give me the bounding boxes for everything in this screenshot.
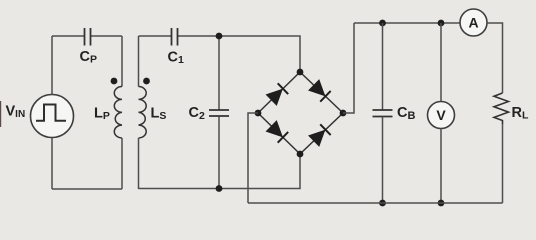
diode D1 (left to top) [266, 83, 289, 106]
capacitor CB [373, 110, 393, 117]
wire: bottom right rail [248, 202, 503, 204]
junction dot V bottom [438, 200, 445, 207]
capacitor C2 branch wire bottom [218, 117, 220, 189]
diode D3 (left to bottom) [266, 120, 289, 143]
bridge rectifier edges [258, 72, 343, 154]
capacitor C1 [172, 28, 178, 46]
polarity dot LP [111, 78, 118, 85]
wire: top right rail [354, 22, 460, 24]
inductor LP [114, 36, 122, 189]
resistor RL [494, 93, 509, 203]
wire: left edge artifact [0, 101, 2, 127]
wire: loop2 bottom rail [139, 154, 301, 189]
wire: VIN top [51, 36, 53, 95]
wire: A to RL corner [487, 23, 503, 93]
svg-text:A: A [468, 15, 478, 31]
junction dot V top [438, 20, 445, 27]
capacitor C2 branch wire top [218, 36, 220, 110]
wire: V branch bottom [440, 129, 442, 204]
diode D2 (top to right) [308, 79, 331, 102]
diode D4 (bottom to right) [308, 124, 331, 147]
capacitor CP [85, 28, 91, 46]
svg-text:V: V [436, 107, 446, 123]
junction dot CB top [379, 20, 386, 27]
node top of bridge [297, 69, 304, 76]
inductor LS [139, 36, 147, 189]
capacitor C2 [209, 110, 229, 116]
wire: VIN bottom [51, 138, 53, 190]
wire: bridge right node to top right rail [343, 23, 354, 113]
polarity dot LS [143, 78, 150, 85]
voltmeter V [428, 102, 455, 129]
junction dot CB bottom [379, 200, 386, 207]
wire: V branch top [440, 23, 442, 102]
wire: bridge left node to bottom rail [248, 113, 258, 203]
capacitor CB branch wire bottom [382, 117, 384, 204]
wire: loop2 top rail [139, 35, 172, 37]
node bottom of bridge [297, 151, 304, 158]
wire: loop1 top rail [52, 35, 84, 37]
source VIN circle [31, 95, 74, 138]
capacitor CB branch wire top [382, 23, 384, 110]
junction dot C2 bottom [216, 185, 223, 192]
ammeter A [460, 9, 487, 36]
junction dot C2 top [216, 33, 223, 40]
wire: loop1 bottom rail [52, 188, 122, 190]
node right of bridge [340, 110, 347, 117]
node left of bridge [255, 110, 262, 117]
